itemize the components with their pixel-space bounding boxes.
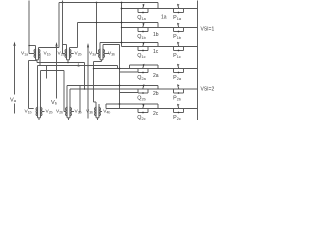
wire bottom pair A2 left drain riser <box>37 66 39 107</box>
wire row 1a top rail <box>59 3 158 9</box>
wire bottom pair B2 left drain riser <box>66 86 68 107</box>
transistor P2b <box>174 84 184 94</box>
transistor P1b <box>174 23 184 33</box>
wire pair A1 right gate lead to rail 2a <box>39 54 41 66</box>
wire pair A1 source line <box>37 60 85 90</box>
svg-text:2a: 2a <box>153 73 159 79</box>
wire pair C1 right drain to group-2 bus <box>103 45 120 49</box>
svg-text:VSI=2: VSI=2 <box>201 87 215 93</box>
wire pair C1 right gate stub <box>104 53 109 55</box>
svg-text:V1a: V1a <box>21 51 28 57</box>
svg-text:1a: 1a <box>161 15 167 21</box>
wire stub from rail 2b down <box>79 86 81 113</box>
transistor P1c <box>174 42 184 52</box>
wire row 2b top rail <box>67 86 158 90</box>
input arrow Va <box>13 42 15 114</box>
wire pair B1 right gate stub <box>71 53 74 55</box>
svg-text:P2b: P2b <box>173 96 181 102</box>
transistor Q1c <box>138 42 148 52</box>
wire bottom pair B2 source stub <box>68 118 70 121</box>
wire row 2a top rail <box>130 65 159 69</box>
svg-text:Vb: Vb <box>51 100 58 106</box>
wire right output bus <box>197 1 199 121</box>
svg-text:1b: 1b <box>153 32 159 38</box>
input arrow Vb <box>55 42 57 99</box>
svg-text:VSI=1: VSI=1 <box>201 27 215 33</box>
wire pair A1 left drain <box>28 45 35 49</box>
wire pair C1 left drain to rail 1c <box>99 43 101 49</box>
transistor pair C1 <box>99 49 105 60</box>
wire pair B1 right drain to rail 1b <box>70 23 78 49</box>
svg-text:Va: Va <box>10 98 17 104</box>
wire pair C1 left gate feed <box>96 3 99 54</box>
wire row 2c top rail <box>106 104 158 109</box>
svg-text:Q1c: Q1c <box>137 53 145 59</box>
transistor Q1a <box>138 4 148 14</box>
svg-text:V2b: V2b <box>56 109 63 115</box>
node arrow junction dots <box>56 65 89 72</box>
svg-text:2c: 2c <box>153 111 159 117</box>
input arrow Vc <box>87 43 89 119</box>
node junctions on rail 1a <box>62 2 98 4</box>
wire bottom pair C2 left drain riser jog <box>94 102 97 107</box>
transistor P2a <box>174 64 184 74</box>
transistor Q2a <box>138 64 148 74</box>
svg-text:V3b: V3b <box>108 51 115 57</box>
svg-text:P2a: P2a <box>173 75 182 81</box>
svg-text:2b: 2b <box>153 91 159 97</box>
wire pair A1 right drain to rail 1a <box>39 3 60 49</box>
transistor pair B2 <box>66 107 72 118</box>
transistor pair A2 <box>36 107 42 118</box>
svg-text:Q2c: Q2c <box>137 115 145 120</box>
svg-text:V4b: V4b <box>103 109 110 115</box>
transistor pair B1 <box>65 49 71 60</box>
svg-text:V2b: V2b <box>46 109 53 115</box>
wire row 2a left rail <box>38 66 118 69</box>
svg-text:P1b: P1b <box>173 34 181 40</box>
wire bottom pair A2 right drain riser <box>41 71 66 112</box>
wire group-1 select bus <box>121 2 123 47</box>
wire row 2a main <box>94 68 198 70</box>
svg-text:P1c: P1c <box>173 53 181 59</box>
wire bottom pair B2 right gate stub <box>72 111 75 113</box>
wire bottom pair C2 right drain to rail 2c <box>98 104 100 107</box>
transistor Q2c <box>138 104 148 114</box>
wire pair A1 left gate feed <box>29 1 34 54</box>
wire pair B1 source drop <box>67 60 69 63</box>
wire row 1b main <box>122 27 198 29</box>
wire bottom pair C2 right gate stub <box>100 111 102 113</box>
svg-text:1c: 1c <box>153 49 159 55</box>
wire row 1a main <box>122 8 198 10</box>
wire bottom pair B2 right drain riser <box>69 89 71 107</box>
wire stub from rail 2a down <box>46 66 48 79</box>
wire bottom pair C2 source stub <box>97 118 99 121</box>
wire row 1b top rail <box>78 23 159 28</box>
svg-text:V3b: V3b <box>86 109 93 115</box>
transistor Q2b <box>138 84 148 94</box>
wire top feed line <box>63 1 66 54</box>
svg-text:V3a: V3a <box>89 51 96 57</box>
svg-text:Q2b: Q2b <box>137 96 145 102</box>
transistor P2c <box>174 104 184 114</box>
wire row 2a right rail elbow <box>129 65 131 69</box>
svg-text:Q2a: Q2a <box>137 75 146 81</box>
svg-text:Q1b: Q1b <box>137 34 145 40</box>
wire bottom pair A2 source stub <box>38 118 40 121</box>
svg-text:V3b: V3b <box>75 109 82 115</box>
wire pair A1 source left branch to bottom pair A2 gate <box>29 61 38 109</box>
wire pair C1 source to row 2a <box>93 60 102 102</box>
transistor pair C2 <box>95 107 101 118</box>
svg-text:V1b: V1b <box>44 51 51 57</box>
wire Q2b gate feed <box>120 92 139 94</box>
wire row 1c top rail <box>100 43 158 47</box>
wire row 2c main <box>106 108 198 110</box>
transistor Q1b <box>138 23 148 33</box>
svg-text:P2c: P2c <box>173 115 181 120</box>
svg-text:Q1a: Q1a <box>137 15 146 21</box>
wire row 2c rail drop to wire <box>105 104 107 109</box>
wire bottom pair A2 right gate stub <box>42 111 45 113</box>
wire group-2 select bus <box>119 45 121 109</box>
transistor P1a <box>174 4 184 14</box>
wire Q2a gate feed <box>120 71 139 73</box>
wire row 1c main <box>122 46 198 48</box>
svg-text:V1b: V1b <box>25 109 32 115</box>
svg-text:V2b: V2b <box>75 51 82 57</box>
wire pair B1 left drain <box>63 45 67 49</box>
svg-text:P1a: P1a <box>173 15 182 21</box>
transistor pair A1 <box>34 49 40 60</box>
wire row 2b main <box>70 88 198 90</box>
